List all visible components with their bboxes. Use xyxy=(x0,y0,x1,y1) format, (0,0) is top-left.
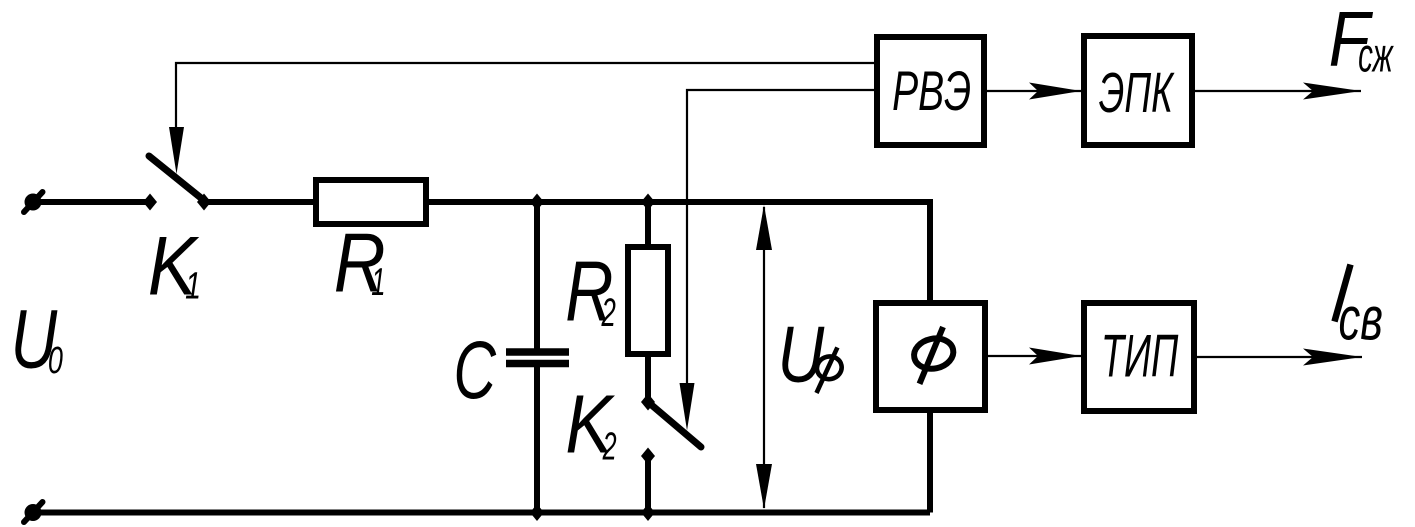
svg-text:ЭПК: ЭПК xyxy=(1099,62,1175,125)
switch K2 bottom contact node xyxy=(641,448,655,465)
arrow ТИП output xyxy=(1197,349,1362,366)
label K1 xyxy=(148,219,201,313)
wire C branch bottom xyxy=(534,364,540,513)
switch K1 right contact node xyxy=(197,194,211,211)
svg-text:РВЭ: РВЭ xyxy=(892,60,971,123)
switch K1 left contact node xyxy=(143,194,157,211)
label Uф xyxy=(778,310,844,399)
block РВЭ box xyxy=(877,37,984,145)
terminal input top xyxy=(24,192,43,212)
wire R1 to right corner xyxy=(426,199,930,205)
label U0 xyxy=(11,293,64,386)
wire C branch top xyxy=(534,202,540,352)
label ТИП xyxy=(1101,321,1179,389)
block ТИП box xyxy=(1084,303,1194,411)
switch K1 actuation arrow xyxy=(169,127,184,174)
block Ф box xyxy=(876,303,985,410)
switch K2 top contact node xyxy=(641,394,655,411)
node junction C bottom xyxy=(530,504,544,521)
node junction C top xyxy=(530,194,544,211)
node junction K2 bottom xyxy=(641,504,655,521)
bottom wire xyxy=(33,510,930,516)
voltage arrow Uф head up xyxy=(756,205,772,250)
svg-text:ТИП: ТИП xyxy=(1101,321,1179,389)
label Fсж xyxy=(1329,0,1394,83)
switch K1 blade xyxy=(149,156,206,202)
arrow Ф to ТИП xyxy=(988,348,1081,365)
terminal input bottom xyxy=(24,502,43,522)
label Iсв xyxy=(1335,265,1383,354)
wire K1 to R1 xyxy=(204,199,316,205)
label Ф xyxy=(911,327,956,384)
resistor R2 xyxy=(628,247,668,354)
capacitor C xyxy=(506,352,569,364)
node junction R2 top xyxy=(641,194,655,211)
wire R2 branch top xyxy=(645,202,651,247)
resistor R1 xyxy=(316,180,426,224)
svg-text:1: 1 xyxy=(185,266,201,308)
arrow РВЭ to ЭПК xyxy=(987,83,1081,100)
switch K2 actuation arrow xyxy=(680,383,695,431)
label R1 xyxy=(334,216,386,309)
voltage arrow Uф line xyxy=(763,207,765,508)
wire right vertical upper xyxy=(927,199,933,303)
label K2 xyxy=(565,379,616,470)
label C xyxy=(454,326,497,417)
wire top left xyxy=(33,199,150,205)
label ЭПК xyxy=(1099,62,1175,125)
wire R2 to K2 xyxy=(645,354,651,402)
svg-text:сж: сж xyxy=(1358,29,1394,82)
wire right vertical lower xyxy=(927,410,933,513)
switch K2 blade xyxy=(648,402,701,447)
arrow ЭПК output xyxy=(1195,83,1361,100)
svg-text:C: C xyxy=(454,326,497,417)
voltage arrow Uф head down xyxy=(756,464,772,509)
label R2 xyxy=(565,245,616,340)
wire K1 control to РВЭ xyxy=(176,63,874,132)
wire K2 to bottom xyxy=(645,456,651,513)
svg-text:1: 1 xyxy=(371,259,385,303)
svg-text:2: 2 xyxy=(601,292,616,336)
block ЭПК box xyxy=(1084,36,1192,145)
wire K2 control to РВЭ xyxy=(687,90,874,386)
svg-text:св: св xyxy=(1339,286,1383,354)
svg-text:0: 0 xyxy=(48,338,64,381)
svg-text:2: 2 xyxy=(602,425,617,468)
label РВЭ xyxy=(892,60,971,123)
